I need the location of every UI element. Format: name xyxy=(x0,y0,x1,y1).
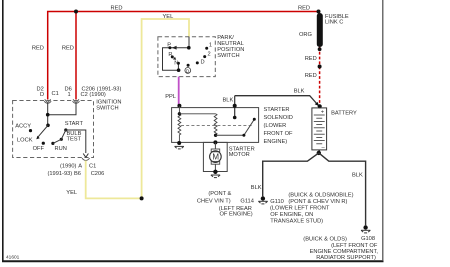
G114 labels xyxy=(197,191,254,218)
svg-text:M: M xyxy=(212,152,219,161)
junction coil top xyxy=(178,112,181,115)
svg-text:2: 2 xyxy=(208,52,211,58)
svg-text:RADIATOR SUPPORT): RADIATOR SUPPORT) xyxy=(316,255,376,261)
G110 labels xyxy=(270,192,354,224)
svg-text:(BUICK & OLDSMOBILE): (BUICK & OLDSMOBILE) xyxy=(288,192,353,198)
ignition output connector labels xyxy=(48,163,105,177)
svg-text:ENGINE): ENGINE) xyxy=(264,139,288,145)
svg-text:LOCK: LOCK xyxy=(17,137,33,143)
solenoid contact arm xyxy=(216,118,256,137)
starter solenoid box xyxy=(172,108,259,143)
G108 labels xyxy=(303,236,378,261)
svg-text:A: A xyxy=(78,163,82,169)
svg-text:SWITCH: SWITCH xyxy=(217,53,239,59)
wire battery negative to grounds xyxy=(317,150,321,155)
wire BLK battery to G110 xyxy=(251,153,319,196)
junction battery positive post xyxy=(318,104,322,108)
ground below solenoid xyxy=(175,146,184,149)
contact D overdrive circled xyxy=(185,64,191,74)
junction at red bus xyxy=(74,10,78,14)
junction N to output xyxy=(177,68,181,72)
contact 2 xyxy=(203,55,206,58)
junction red bus to fusible link xyxy=(317,10,321,14)
svg-text:(1991-93): (1991-93) xyxy=(48,171,73,177)
svg-text:RED: RED xyxy=(32,46,44,52)
svg-text:RED: RED xyxy=(111,6,123,12)
solenoid pull-in coil xyxy=(179,114,217,135)
junction inside ignition switch xyxy=(46,113,50,117)
svg-text:C1: C1 xyxy=(89,163,96,169)
park/neutral position switch dashed box xyxy=(158,37,215,77)
wire YEL from ignition to park/neutral switch xyxy=(66,14,189,198)
ignition switch internal feed wires xyxy=(48,103,76,125)
svg-text:C1: C1 xyxy=(52,91,59,97)
svg-text:1: 1 xyxy=(209,43,212,49)
svg-text:RED: RED xyxy=(62,46,74,52)
svg-text:C206: C206 xyxy=(91,171,105,177)
wire START output xyxy=(66,130,86,153)
solenoid hold-in coil xyxy=(178,106,181,143)
svg-text:C2 (1990): C2 (1990) xyxy=(81,92,106,98)
svg-text:G114: G114 xyxy=(240,199,254,205)
svg-text:ENGINE COMPARTMENT,: ENGINE COMPARTMENT, xyxy=(310,249,379,255)
moving contact arrow at P xyxy=(172,46,177,50)
ignition switch pivot xyxy=(46,124,50,128)
ground below starter motor G114 xyxy=(211,170,220,178)
svg-text:CHEV VIN T): CHEV VIN T) xyxy=(197,199,231,205)
svg-text:(PONT & CHEV VIN R): (PONT & CHEV VIN R) xyxy=(288,199,347,205)
connector symbol ignition output A/B6 xyxy=(82,158,90,160)
svg-text:ORG: ORG xyxy=(299,32,312,38)
contact BULB TEST xyxy=(60,138,63,141)
svg-text:(LOWER LEFT FRONT: (LOWER LEFT FRONT xyxy=(270,206,330,212)
svg-text:SWITCH: SWITCH xyxy=(96,105,118,111)
arrow into output connector xyxy=(83,154,88,158)
battery xyxy=(312,108,357,151)
svg-text:RED: RED xyxy=(305,73,317,79)
small arrow at R xyxy=(173,57,176,60)
ignition switch lever (to LOCK) xyxy=(36,125,48,139)
svg-text:TRANSAXLE STUD): TRANSAXLE STUD) xyxy=(270,218,323,224)
connector symbol at ignition pin 1 xyxy=(73,99,80,103)
svg-text:G110: G110 xyxy=(270,199,284,205)
contact N xyxy=(177,62,180,65)
svg-text:BLK: BLK xyxy=(223,98,234,104)
contact 1 xyxy=(205,47,208,50)
svg-text:STARTER: STARTER xyxy=(264,107,290,113)
svg-text:41601: 41601 xyxy=(6,255,20,261)
junction coil at box bottom xyxy=(177,141,181,145)
starter motor box xyxy=(203,142,227,171)
junction solenoid to motor xyxy=(213,140,217,144)
svg-text:SOLENOID: SOLENOID xyxy=(264,115,293,121)
svg-text:RUN: RUN xyxy=(55,146,67,152)
ignition switch dashed box xyxy=(13,101,94,158)
svg-text:LINK C: LINK C xyxy=(325,20,343,26)
svg-text:(LOWER: (LOWER xyxy=(264,123,287,129)
svg-text:D: D xyxy=(201,60,205,66)
contact D xyxy=(196,61,199,64)
svg-text:FRONT OF: FRONT OF xyxy=(264,131,293,137)
svg-text:N: N xyxy=(174,61,178,67)
svg-text:PPL: PPL xyxy=(165,94,176,100)
ground G110 xyxy=(258,196,267,204)
lever RUN to START xyxy=(53,130,66,143)
svg-text:START: START xyxy=(65,121,84,127)
svg-text:P: P xyxy=(167,42,171,48)
svg-text:TEST: TEST xyxy=(67,136,82,142)
connector C1 pin D / C206 labels xyxy=(37,87,122,99)
contact RUN xyxy=(51,142,54,145)
svg-text:BATTERY: BATTERY xyxy=(331,111,357,117)
junction PPL at solenoid xyxy=(177,104,181,108)
wire BLK battery to G108 xyxy=(319,153,366,225)
ignition switch position labels xyxy=(15,121,83,152)
svg-text:G108: G108 xyxy=(361,236,375,242)
svg-text:(1990): (1990) xyxy=(60,163,77,169)
svg-text:B6: B6 xyxy=(74,171,81,177)
wire BLK solenoid to battery positive xyxy=(223,88,319,106)
ground G108 xyxy=(361,225,370,233)
junction at P/N feed xyxy=(187,46,191,50)
junction below fusible link xyxy=(318,47,322,51)
contact P xyxy=(168,46,171,49)
P/N position labels xyxy=(167,42,212,66)
svg-text:OF ENGINE, ON: OF ENGINE, ON xyxy=(270,212,313,218)
contact START xyxy=(64,128,67,131)
junction pull-in coil bottom xyxy=(214,134,217,137)
svg-text:1: 1 xyxy=(68,92,71,98)
starter motor M xyxy=(210,142,222,171)
svg-text:OF ENGINE): OF ENGINE) xyxy=(220,212,253,218)
solenoid linkage dashed xyxy=(181,125,253,127)
wire PPL park/neutral to solenoid xyxy=(165,77,179,105)
wire RED branch to ignition switch pin 1 xyxy=(32,12,76,100)
connector symbol at ignition pin D xyxy=(44,99,51,103)
svg-text:R: R xyxy=(168,52,172,58)
svg-text:OFF: OFF xyxy=(33,146,45,152)
junction on YEL wire xyxy=(140,196,144,200)
svg-text:D: D xyxy=(40,92,44,98)
svg-text:BLK: BLK xyxy=(294,88,305,94)
svg-text:YEL: YEL xyxy=(66,190,77,196)
svg-text:BLK: BLK xyxy=(352,172,363,178)
wire RED fusible link to battery xyxy=(305,47,320,105)
svg-text:BLK: BLK xyxy=(251,185,262,191)
svg-text:(BUICK & OLDS): (BUICK & OLDS) xyxy=(303,236,347,242)
contact R xyxy=(171,55,174,58)
svg-text:RED: RED xyxy=(305,56,317,62)
fusible link C xyxy=(299,13,349,47)
park/neutral switch internal wiring xyxy=(163,37,190,70)
contact OFF xyxy=(42,142,45,145)
junction on red wire xyxy=(318,65,322,69)
svg-text:(PONT &: (PONT & xyxy=(208,191,231,197)
wire RED top bus xyxy=(48,6,319,100)
svg-text:MOTOR: MOTOR xyxy=(229,152,250,158)
contact ACCY xyxy=(29,129,32,132)
svg-text:YEL: YEL xyxy=(163,14,174,20)
solenoid fixed contact xyxy=(233,96,237,120)
svg-text:ACCY: ACCY xyxy=(15,123,31,129)
svg-text:RED: RED xyxy=(298,6,310,12)
